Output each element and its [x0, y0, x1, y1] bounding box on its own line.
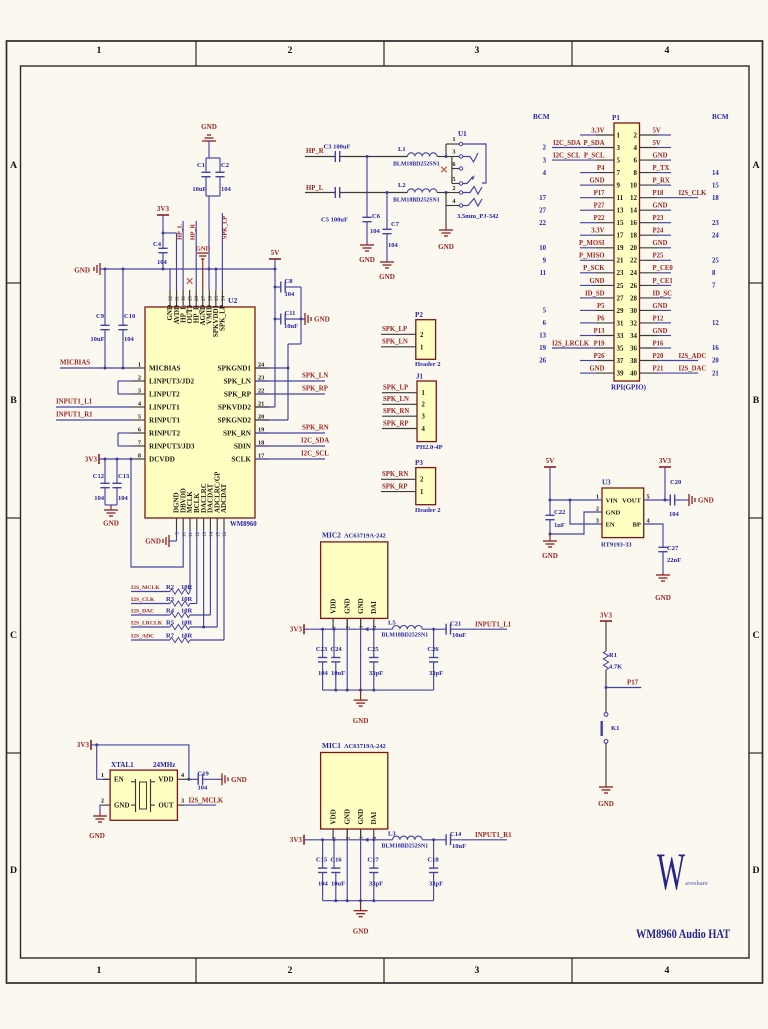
- svg-text:6: 6: [138, 427, 141, 434]
- svg-text:25: 25: [712, 258, 719, 265]
- svg-text:GND: GND: [344, 809, 352, 825]
- capacitor C1 10uF: [192, 158, 210, 196]
- svg-text:27: 27: [202, 296, 207, 302]
- svg-text:20: 20: [712, 358, 719, 365]
- svg-text:I2S_MCLK: I2S_MCLK: [131, 585, 160, 591]
- svg-text:26: 26: [539, 358, 546, 365]
- svg-text:WM8960: WM8960: [230, 521, 257, 528]
- net label SPK_LP (vertical, above pin 24): [221, 213, 228, 290]
- net label HP_L (vertical, above pin 30): [177, 221, 184, 290]
- svg-text:I2S_MCLK: I2S_MCLK: [189, 798, 224, 805]
- svg-text:16: 16: [630, 219, 637, 227]
- svg-text:36: 36: [630, 344, 637, 352]
- net label SPK_LN (right of pin 23): [255, 373, 328, 382]
- svg-text:SPK_LP: SPK_LP: [383, 385, 408, 392]
- capacitor C20 104: [669, 479, 689, 518]
- svg-text:BCM: BCM: [533, 113, 550, 121]
- svg-text:30: 30: [630, 307, 637, 315]
- svg-text:SPKVDD2: SPKVDD2: [218, 403, 252, 411]
- ground symbol (sideways, right of C19): [222, 773, 247, 785]
- svg-text:32: 32: [169, 296, 174, 302]
- svg-text:I2C_SCL: I2C_SCL: [553, 153, 581, 160]
- svg-text:RPI(GPIO): RPI(GPIO): [611, 384, 647, 392]
- svg-text:10: 10: [630, 182, 637, 190]
- svg-text:33pF: 33pF: [369, 670, 383, 677]
- svg-text:MICBIAS: MICBIAS: [149, 364, 181, 372]
- svg-text:GND: GND: [231, 776, 247, 784]
- wire GND rail: [100, 268, 277, 271]
- svg-text:29: 29: [189, 296, 194, 302]
- svg-text:3V3: 3V3: [290, 836, 303, 844]
- inductor L2 BLM18BD252SN1: [393, 182, 440, 204]
- svg-text:10R: 10R: [181, 596, 193, 603]
- svg-text:35: 35: [617, 344, 624, 352]
- net label SPK_LN (J1 pin 2): [382, 396, 417, 404]
- U2 top pin 24 SPK_LP: [219, 290, 227, 331]
- svg-text:DCVDD: DCVDD: [149, 455, 175, 463]
- svg-text:GND: GND: [359, 256, 375, 264]
- connector J1 PH2.0-4P: [416, 373, 443, 452]
- svg-text:17: 17: [539, 195, 546, 202]
- svg-text:3: 3: [543, 157, 547, 164]
- svg-text:19: 19: [617, 244, 624, 252]
- U2 bottom pin 11 MCLK: [186, 491, 194, 537]
- svg-text:1: 1: [617, 131, 621, 139]
- svg-text:24: 24: [712, 232, 719, 239]
- U2 pin 18 SDIN: [234, 440, 269, 451]
- svg-text:ADCDAT: ADCDAT: [220, 483, 228, 513]
- capacitor C24 10uF: [330, 629, 345, 690]
- svg-text:C6: C6: [372, 213, 381, 220]
- svg-text:B: B: [10, 395, 17, 406]
- resistor R3 10R / net label I2S_CLK: [131, 530, 197, 606]
- svg-text:22: 22: [630, 257, 637, 265]
- P1 row pins 19/20: P_MOSI | GND: [539, 240, 671, 252]
- svg-text:I2S_ADC: I2S_ADC: [131, 634, 154, 640]
- svg-text:13: 13: [539, 333, 546, 340]
- svg-text:GND: GND: [590, 366, 605, 373]
- svg-text:INPUT1_R1: INPUT1_R1: [56, 412, 93, 419]
- U2 bottom pin 13 DACLRC: [200, 483, 208, 537]
- regulator U3 RT9193-33: [596, 479, 651, 549]
- U2 pin 21 SPKVDD2: [218, 401, 269, 412]
- svg-text:3: 3: [475, 45, 480, 56]
- svg-text:34: 34: [630, 332, 637, 340]
- U2 pin 23 SPK_LN: [223, 375, 269, 386]
- ground symbol (below C27): [655, 575, 671, 602]
- svg-text:15: 15: [617, 219, 624, 227]
- capacitor C15 104: [316, 840, 329, 901]
- capacitor C13 104: [112, 459, 130, 505]
- MIC1 pin 1 VDD: [330, 809, 338, 839]
- svg-text:3V3: 3V3: [600, 612, 613, 620]
- svg-text:LINPUT1: LINPUT1: [149, 403, 180, 411]
- svg-text:104: 104: [124, 336, 135, 343]
- inductor L5 BLM18BD252SN1: [382, 620, 429, 639]
- svg-text:R7: R7: [166, 633, 175, 640]
- svg-text:6: 6: [452, 161, 455, 168]
- svg-text:P2: P2: [415, 311, 423, 319]
- svg-text:1uF: 1uF: [554, 522, 565, 529]
- capacitor C22 1uF: [545, 500, 565, 536]
- svg-text:BLM18BD252SN1: BLM18BD252SN1: [382, 633, 429, 639]
- wire K1 to GND: [605, 743, 607, 785]
- svg-text:GND: GND: [653, 153, 668, 160]
- U2 pin 20 SPKGND2: [217, 414, 269, 425]
- wire 3V3 to AVDD pin: [162, 232, 177, 291]
- net label SPK_RN (right of pin 19): [255, 425, 329, 434]
- svg-text:3.3V: 3.3V: [591, 228, 604, 235]
- wire VOUT to 3V3 and C20: [644, 499, 671, 502]
- net label SPK_RP (P3 pin 1): [381, 483, 416, 491]
- svg-text:P6: P6: [597, 315, 605, 322]
- svg-text:32: 32: [630, 319, 637, 327]
- net label MICBIAS: [60, 360, 131, 370]
- svg-text:10: 10: [539, 245, 546, 252]
- svg-text:SPK_LN: SPK_LN: [382, 339, 408, 346]
- svg-text:5: 5: [617, 157, 621, 165]
- svg-text:R5: R5: [166, 620, 175, 627]
- svg-text:21: 21: [258, 401, 264, 408]
- U2 top pin 30 HP_L: [179, 290, 187, 323]
- svg-text:3V3: 3V3: [290, 626, 303, 634]
- capacitor C19 104: [189, 770, 222, 791]
- svg-text:GND: GND: [653, 303, 668, 310]
- svg-text:38: 38: [630, 357, 637, 365]
- U2 pin 2 LINPUT3/JD2: [131, 375, 195, 386]
- svg-text:21: 21: [617, 257, 624, 265]
- wire 3V3 to DCVDD pin 8: [99, 458, 133, 461]
- svg-text:BP: BP: [633, 521, 642, 528]
- svg-text:SPK_RN: SPK_RN: [223, 429, 252, 437]
- svg-text:BLM18BD252SN1: BLM18BD252SN1: [393, 198, 440, 204]
- capacitor C16 10uF: [330, 840, 345, 901]
- connector P1 RPI(GPIO) 40-pin header: [611, 114, 647, 392]
- svg-text:13: 13: [617, 207, 624, 215]
- svg-text:11: 11: [540, 270, 547, 277]
- svg-text:27: 27: [539, 207, 546, 214]
- svg-text:104: 104: [94, 495, 105, 502]
- svg-text:LINPUT2: LINPUT2: [149, 390, 180, 398]
- svg-text:GND: GND: [357, 809, 365, 825]
- svg-text:4: 4: [634, 144, 638, 152]
- svg-text:5V: 5V: [653, 140, 661, 147]
- svg-text:I2C_SDA: I2C_SDA: [301, 438, 329, 445]
- U2 pin 17 SCLK: [231, 453, 269, 464]
- svg-text:40: 40: [630, 370, 637, 378]
- svg-text:6: 6: [543, 320, 547, 327]
- svg-text:P23: P23: [653, 215, 664, 222]
- MIC1 pin 3 GND: [357, 809, 365, 901]
- capacitor C7 104: [382, 193, 399, 263]
- capacitor C8 104: [275, 278, 301, 298]
- MIC2 pin 3 GND: [357, 598, 365, 690]
- P1 row pins 1/2: 3.3V | 5V: [580, 127, 671, 139]
- net label I2S_MCLK (XTAL1 OUT): [184, 798, 224, 806]
- svg-text:23: 23: [617, 269, 624, 277]
- microphone MIC1 AC63719A-242 body: [321, 741, 388, 829]
- svg-text:31: 31: [617, 319, 624, 327]
- svg-text:C22: C22: [554, 509, 565, 516]
- net label INPUT1_R1: [56, 412, 131, 421]
- svg-text:SPK_RP: SPK_RP: [224, 390, 252, 398]
- wire 3V3 row to MIC1: [304, 838, 375, 842]
- net label SPK_LN (P2 pin 1): [381, 339, 416, 347]
- svg-text:GND: GND: [114, 801, 130, 809]
- svg-text:8: 8: [712, 270, 716, 277]
- svg-text:4: 4: [665, 45, 670, 56]
- svg-text:RINPUT1: RINPUT1: [149, 416, 181, 424]
- net label SPK_LP (P2 pin 2): [381, 326, 416, 334]
- wire R1 to K1 / net label P17: [605, 670, 642, 713]
- svg-text:1: 1: [97, 965, 102, 976]
- U2 top pin 27 AGND: [199, 290, 207, 326]
- wire LINPUT3/LINPUT2 stub bracket: [118, 381, 131, 394]
- svg-text:MIC2: MIC2: [322, 530, 341, 539]
- wire 3V3 row to MIC2: [304, 627, 375, 631]
- svg-text:10uF: 10uF: [284, 323, 298, 330]
- svg-text:R3: R3: [166, 596, 175, 603]
- svg-text:7: 7: [617, 169, 621, 177]
- svg-text:P4: P4: [597, 165, 605, 172]
- svg-text:P20: P20: [653, 353, 664, 360]
- svg-text:C19: C19: [198, 770, 210, 777]
- svg-text:LINPUT3/JD2: LINPUT3/JD2: [149, 377, 195, 385]
- svg-text:20: 20: [630, 244, 637, 252]
- svg-text:C: C: [752, 630, 759, 641]
- svg-text:I2C_SDA: I2C_SDA: [553, 140, 581, 147]
- svg-text:3V3: 3V3: [157, 205, 170, 213]
- svg-text:3V3: 3V3: [659, 457, 672, 465]
- svg-text:I2S_DAC: I2S_DAC: [679, 366, 707, 373]
- svg-text:SPK_LP: SPK_LP: [221, 216, 228, 239]
- svg-text:L1: L1: [398, 146, 406, 153]
- U2 top pin 32 GND: [166, 290, 174, 321]
- svg-text:GND: GND: [653, 328, 668, 335]
- svg-text:C16: C16: [330, 857, 342, 864]
- svg-text:ID_SD: ID_SD: [585, 290, 605, 297]
- svg-text:24MHz: 24MHz: [153, 761, 175, 769]
- U2 pin 7 RINPUT3/JD3: [131, 440, 195, 451]
- svg-text:INPUT1_L1: INPUT1_L1: [56, 399, 93, 406]
- svg-text:SPK_LN: SPK_LN: [302, 373, 328, 380]
- capacitor C12 104: [93, 459, 110, 505]
- svg-text:K1: K1: [611, 725, 619, 732]
- U2 pin stubs XTAL1: [103, 779, 189, 805]
- ground symbol (sideways, right of C11): [305, 313, 330, 325]
- svg-text:C12: C12: [93, 473, 104, 480]
- svg-text:2: 2: [452, 185, 455, 192]
- svg-text:104: 104: [221, 186, 232, 193]
- wire 5V vertical to SPKVDD2 pin 21: [255, 259, 277, 407]
- svg-text:C14: C14: [450, 831, 462, 838]
- svg-text:24: 24: [630, 269, 637, 277]
- svg-text:C1: C1: [197, 162, 205, 169]
- capacitor C5 100uF: [321, 187, 348, 224]
- P1 row pins 27/28: ID_SD | ID_SC: [580, 290, 672, 302]
- wire DAI to L coil to cap: [374, 838, 446, 841]
- svg-text:30: 30: [182, 296, 187, 302]
- svg-text:24: 24: [221, 296, 226, 302]
- svg-text:28: 28: [195, 296, 200, 302]
- svg-text:P21: P21: [653, 366, 664, 373]
- capacitor C9 10uF: [90, 269, 109, 368]
- P1 row pins 39/40: GND | P21: [580, 366, 719, 378]
- svg-text:4: 4: [181, 772, 185, 779]
- svg-text:18: 18: [630, 232, 637, 240]
- svg-text:C7: C7: [391, 221, 400, 228]
- svg-text:RINPUT3/JD3: RINPUT3/JD3: [149, 442, 195, 450]
- svg-text:37: 37: [617, 357, 624, 365]
- svg-text:C3 100uF: C3 100uF: [324, 144, 351, 151]
- svg-text:GND: GND: [590, 178, 605, 185]
- svg-text:20: 20: [258, 414, 264, 421]
- wire L2 to jack: [437, 192, 446, 194]
- net label HP_R (vertical, above pin 28): [190, 221, 197, 290]
- ground symbol (sideways, left of C9/C10): [74, 263, 100, 275]
- svg-text:C18: C18: [427, 857, 439, 864]
- svg-text:HP_R: HP_R: [306, 148, 324, 155]
- ground symbol (below jack): [438, 224, 454, 251]
- svg-text:P_RX: P_RX: [653, 178, 670, 185]
- svg-text:W: W: [657, 843, 685, 901]
- svg-text:2: 2: [101, 797, 104, 804]
- svg-text:3.5mm_PJ-342: 3.5mm_PJ-342: [457, 213, 499, 220]
- svg-text:SPK_RP: SPK_RP: [383, 420, 409, 427]
- U2 pin 4 LINPUT1: [131, 401, 180, 412]
- svg-text:5: 5: [452, 176, 455, 183]
- capacitor C25 33pF: [367, 629, 383, 690]
- svg-text:6: 6: [634, 157, 638, 165]
- svg-text:16: 16: [712, 345, 719, 352]
- svg-text:2: 2: [634, 131, 638, 139]
- wire RINPUT2/RINPUT3 stub bracket: [118, 433, 131, 446]
- svg-text:P12: P12: [653, 315, 664, 322]
- svg-text:GND: GND: [201, 123, 217, 131]
- svg-text:GND: GND: [379, 273, 395, 281]
- U2 bottom pin 14 DACDAT: [207, 483, 215, 537]
- U2 pin 22 SPK_RP: [224, 388, 269, 399]
- svg-text:C4: C4: [153, 241, 162, 248]
- svg-text:18: 18: [712, 195, 719, 202]
- svg-text:104: 104: [318, 881, 329, 888]
- svg-text:25: 25: [617, 282, 624, 290]
- connector U1 3.5mm_PJ-342 headphone jack: [445, 130, 499, 220]
- capacitor C18 33pF: [427, 840, 443, 901]
- svg-text:10uF: 10uF: [452, 632, 466, 639]
- wire C1/C2 bottom to VMID pin: [206, 196, 220, 290]
- U2 pin 19 SPK_RN: [223, 427, 269, 438]
- capacitor C26 33pF: [427, 629, 443, 690]
- svg-text:3: 3: [138, 388, 141, 395]
- svg-text:14: 14: [630, 207, 637, 215]
- inductor L3 BLM18BD252SN1: [382, 830, 429, 849]
- svg-text:19: 19: [539, 345, 546, 352]
- svg-text:VIN: VIN: [606, 497, 618, 504]
- svg-text:U1: U1: [458, 130, 467, 138]
- svg-text:GND: GND: [353, 717, 369, 725]
- svg-text:GND: GND: [344, 598, 352, 614]
- MIC2 pin 2 GND: [344, 598, 352, 690]
- svg-text:C10: C10: [124, 313, 136, 320]
- power 5V (above IC top right): [269, 249, 281, 259]
- capacitor C2 104: [215, 158, 231, 196]
- svg-text:HP_L: HP_L: [306, 185, 324, 192]
- svg-text:15: 15: [712, 182, 719, 189]
- svg-text:1: 1: [596, 494, 599, 501]
- svg-text:GND: GND: [606, 509, 621, 516]
- svg-text:U2: U2: [228, 296, 238, 305]
- svg-text:10uF: 10uF: [192, 186, 206, 193]
- svg-text:21: 21: [712, 370, 719, 377]
- svg-text:GND: GND: [89, 832, 105, 840]
- svg-text:GND: GND: [542, 552, 558, 560]
- ground symbol (below C22): [542, 534, 558, 560]
- svg-text:10R: 10R: [181, 584, 193, 591]
- svg-text:C27: C27: [667, 545, 679, 552]
- svg-text:10R: 10R: [181, 633, 193, 640]
- svg-text:7: 7: [138, 440, 141, 447]
- svg-text:P17: P17: [627, 679, 639, 686]
- U2 pin 24 SPKGND1: [217, 362, 269, 373]
- connector P2 Header 2: [415, 311, 440, 368]
- U2 pin 1 MICBIAS: [131, 362, 181, 373]
- capacitor C4 104: [153, 233, 168, 269]
- svg-text:C8: C8: [285, 278, 294, 285]
- resistor R7 10R / net label I2S_ADC: [131, 530, 224, 643]
- wire jack sleeve to GND: [445, 206, 447, 225]
- svg-text:7: 7: [712, 283, 716, 290]
- svg-text:P3: P3: [415, 459, 423, 467]
- no-connect cross on OUT3 pin: [187, 278, 193, 284]
- svg-text:33pF: 33pF: [429, 881, 443, 888]
- svg-text:SPK_LP: SPK_LP: [219, 304, 227, 331]
- net label I2C_SCL (right of pin 17 SCLK): [255, 451, 329, 460]
- svg-text:GND: GND: [438, 243, 454, 251]
- svg-text:P_SCK: P_SCK: [583, 265, 605, 272]
- svg-text:26: 26: [630, 282, 637, 290]
- wire C3 to L1: [340, 155, 408, 158]
- U2 bottom pin 10 DBVDD: [179, 488, 187, 537]
- svg-text:104: 104: [285, 291, 296, 298]
- P1 row pins 15/16: P22 | P23: [539, 215, 719, 227]
- capacitor C21 10uF (series): [446, 621, 507, 640]
- svg-text:C9: C9: [96, 313, 105, 320]
- svg-text:A: A: [10, 160, 17, 171]
- ground symbol (below XTAL1 pin 2): [89, 813, 107, 840]
- svg-text:INPUT1_R1: INPUT1_R1: [475, 832, 512, 839]
- wire GND pin 2 to ground: [550, 512, 602, 534]
- svg-text:8: 8: [138, 453, 141, 460]
- svg-text:DAI: DAI: [370, 811, 378, 824]
- power 3V3 (above R1): [600, 612, 613, 652]
- P1 row pins 11/12: P17 | P18: [539, 190, 719, 202]
- svg-text:4.7K: 4.7K: [609, 664, 623, 671]
- P1 row pins 7/8: P4 | P_TX: [543, 165, 720, 177]
- svg-text:P25: P25: [653, 253, 664, 260]
- power 3V3 (sideways, MIC2 VDD): [290, 624, 304, 634]
- net label SPK_RN (P3 pin 2): [381, 471, 416, 479]
- net label SPK_RP (right of pin 22): [255, 386, 328, 395]
- net label SPK_RN (J1 pin 3): [382, 408, 417, 416]
- svg-text:3: 3: [452, 149, 455, 156]
- capacitor C6 104: [362, 157, 380, 246]
- svg-text:MICBIAS: MICBIAS: [60, 360, 90, 367]
- svg-text:33pF: 33pF: [369, 881, 383, 888]
- svg-text:AC63719A-242: AC63719A-242: [344, 532, 386, 539]
- svg-text:C23: C23: [316, 646, 328, 653]
- net label INPUT1_L1: [56, 399, 131, 408]
